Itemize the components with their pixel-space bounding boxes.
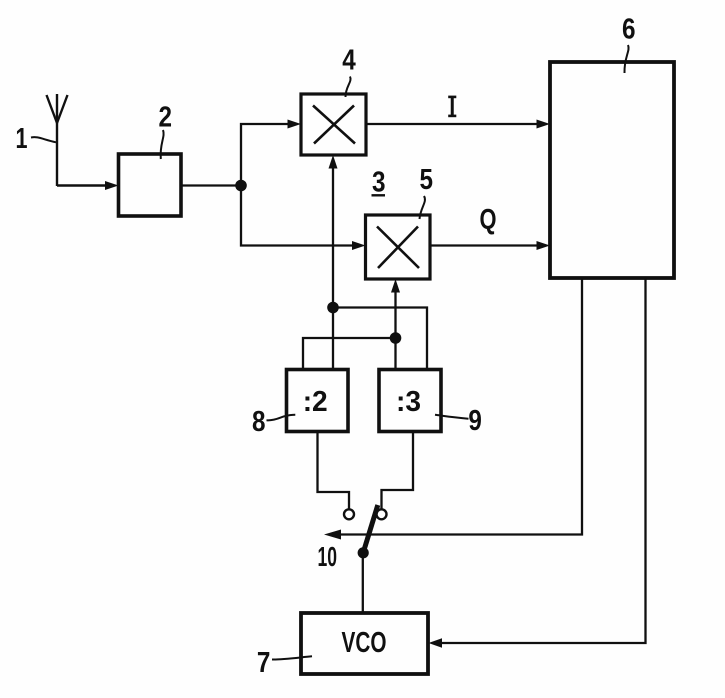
svg-text:5: 5 [419,164,433,196]
svg-text:7: 7 [257,647,271,679]
svg-text:Q: Q [480,204,497,236]
svg-text:3: 3 [372,167,386,199]
svg-text:9: 9 [468,405,482,437]
svg-text:10: 10 [317,541,337,572]
svg-text:1: 1 [16,123,28,155]
svg-text:6: 6 [622,14,636,46]
svg-text:4: 4 [342,44,356,76]
svg-text:2: 2 [159,101,173,133]
svg-text::2: :2 [303,386,328,418]
svg-text:VCO: VCO [342,627,387,659]
svg-text::3: :3 [396,386,421,418]
svg-text:8: 8 [252,406,266,438]
